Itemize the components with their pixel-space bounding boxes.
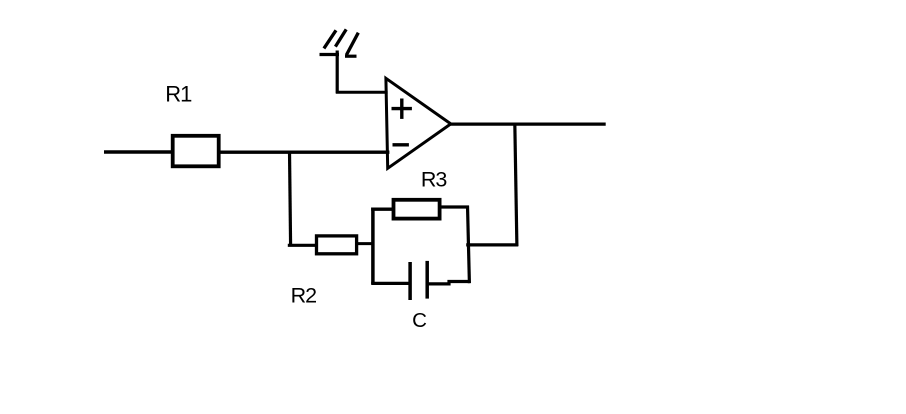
ground bar right segment — [345, 55, 357, 58]
ground stem — [336, 51, 339, 94]
resistor R1 — [173, 136, 219, 167]
wire: top branch to R3 left lead — [371, 208, 393, 211]
svg-text:R2: R2 — [291, 283, 317, 307]
op-amp minus pin marking — [393, 143, 409, 146]
ground hatch slash 3 — [346, 33, 358, 55]
wire: parallel network left vertical — [371, 208, 375, 285]
wire: ground to op-amp non-inverting input — [336, 91, 388, 94]
wire: input lead into R1 — [104, 150, 173, 153]
wire: R3 right lead to right vertical — [440, 205, 469, 208]
wire: R2 right lead to parallel network — [357, 242, 375, 245]
svg-text:C: C — [412, 309, 427, 332]
svg-text:R1: R1 — [165, 81, 192, 106]
ground bar left segment — [320, 53, 340, 56]
resistor R2 — [317, 236, 357, 254]
op-amp U1 triangle — [386, 78, 451, 168]
wire: capacitor right plate to right vertical — [426, 282, 470, 284]
wire: bottom branch to capacitor left plate — [371, 282, 410, 285]
wire: op-amp output lead — [451, 122, 606, 125]
capacitor C right plate — [425, 261, 429, 299]
ground hatch slash 1 — [324, 30, 336, 48]
resistor R3 — [394, 200, 440, 219]
wire: output vertical drop — [515, 123, 517, 247]
wire: junction node dropping to feedback branch — [290, 151, 291, 247]
wire: feedback connector to output drop — [466, 243, 518, 246]
op-amp plus pin marking — [392, 99, 412, 119]
ground hatch slash 2 — [335, 29, 346, 46]
wire: parallel network right vertical — [468, 206, 470, 284]
wire: node to R2 left lead — [288, 244, 317, 247]
svg-text:R3: R3 — [421, 167, 448, 191]
capacitor C left plate — [408, 262, 412, 300]
wire: R1 to op-amp inverting input — [219, 151, 390, 154]
